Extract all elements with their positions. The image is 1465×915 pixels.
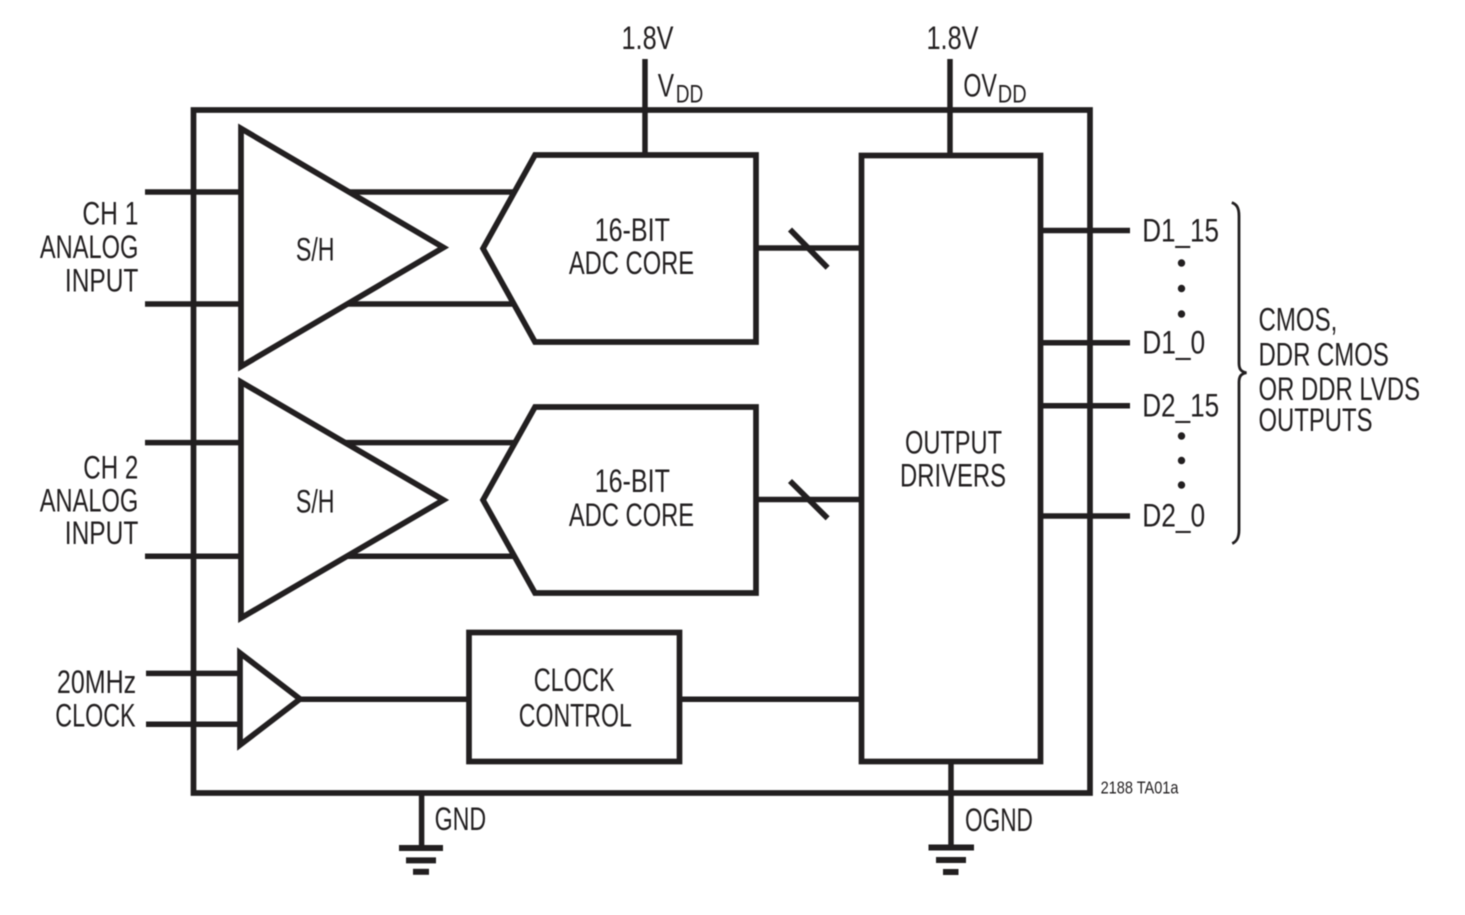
svg-text:DRIVERS: DRIVERS [900,457,1006,493]
buffer clock input [240,653,300,745]
svg-text:DD: DD [676,81,704,109]
bus slash ADC1 [790,230,828,268]
wire OVDD supply drop [947,59,953,157]
ellipsis dots D1 bus [1178,259,1185,266]
wire CH1 analog input - [145,301,521,307]
wire ADC2 data bus [754,497,864,503]
block clock control [469,633,680,762]
wire output D2_15 [1038,403,1130,409]
block ADC1 16-bit ADC core [483,155,756,342]
svg-text:1.8V: 1.8V [927,20,980,56]
wire clock input bottom [146,722,240,728]
svg-text:D1_15: D1_15 [1142,212,1219,248]
svg-text:D1_0: D1_0 [1142,324,1205,360]
svg-text:CMOS,: CMOS, [1259,301,1338,337]
svg-text:INPUT: INPUT [65,263,139,299]
bus slash ADC2 [790,481,828,518]
ellipsis dots D2 bus [1178,432,1185,439]
svg-text:S/H: S/H [296,484,335,520]
wire ADC1 data bus [754,245,864,251]
svg-text:CONTROL: CONTROL [519,697,632,733]
svg-text:ANALOG: ANALOG [40,483,139,519]
block ADC2 16-bit ADC core [483,407,756,593]
svg-text:20MHz: 20MHz [57,664,136,700]
wire clock buffer to clock control [299,697,469,703]
svg-text:ADC CORE: ADC CORE [569,497,694,533]
svg-text:DD: DD [998,81,1027,109]
wire CH2 analog input + [145,440,520,446]
svg-text:OV: OV [963,68,997,104]
svg-text:INPUT: INPUT [65,515,139,551]
svg-text:16-BIT: 16-BIT [595,463,670,499]
wire VDD supply drop [642,59,648,156]
svg-text:D2_0: D2_0 [1142,498,1205,534]
ground symbol OGND [929,848,975,873]
svg-text:CH 2: CH 2 [83,449,138,485]
block output drivers [862,156,1041,762]
svg-text:D2_15: D2_15 [1142,387,1219,423]
svg-text:ANALOG: ANALOG [40,229,139,265]
ground symbol GND [399,848,443,872]
wire CH2 analog input - [145,553,521,559]
amplifier S/H channel 2 [241,382,444,618]
wire output D1_0 [1038,340,1130,346]
svg-text:1.8V: 1.8V [622,20,675,56]
svg-text:OGND: OGND [965,802,1033,838]
svg-text:S/H: S/H [296,232,335,268]
svg-text:ADC CORE: ADC CORE [569,245,694,281]
svg-text:DDR CMOS: DDR CMOS [1259,337,1389,373]
svg-text:CH 1: CH 1 [82,196,138,232]
wire OGND drop [948,759,954,847]
wire output D1_15 [1038,228,1130,234]
wire clock control to output drivers [677,697,864,703]
wire 20MHz clock input top [146,671,240,677]
svg-text:2188 TA01a: 2188 TA01a [1101,778,1179,798]
chip outline U1 [194,110,1091,793]
svg-text:16-BIT: 16-BIT [595,212,670,248]
svg-text:OUTPUTS: OUTPUTS [1259,402,1373,438]
svg-text:GND: GND [435,801,487,837]
svg-text:CLOCK: CLOCK [534,662,615,698]
svg-text:V: V [658,68,675,104]
brace outputs group [1232,203,1247,544]
svg-text:CLOCK: CLOCK [55,697,135,733]
svg-text:OUTPUT: OUTPUT [905,425,1002,461]
wire CH1 analog input + [145,189,520,195]
wire output D2_0 [1038,513,1130,519]
amplifier S/H channel 1 [241,129,444,367]
wire GND drop [419,793,425,847]
